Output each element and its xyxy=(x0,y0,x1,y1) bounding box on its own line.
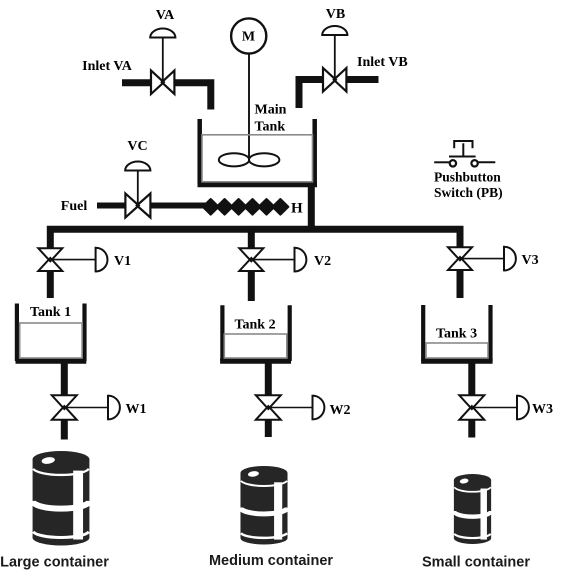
svg-text:Pushbutton: Pushbutton xyxy=(434,170,501,185)
pipe inlet VA right elbow xyxy=(174,83,210,110)
pipe tank2 outlet xyxy=(265,364,272,396)
svg-text:Switch (PB): Switch (PB) xyxy=(434,185,503,200)
tank 2 level xyxy=(224,334,286,358)
valve VA body xyxy=(151,71,174,95)
valve V2 xyxy=(239,248,263,271)
pipe inlet VB right xyxy=(346,76,378,83)
svg-text:Tank 2: Tank 2 xyxy=(234,318,275,333)
valve V3 xyxy=(448,247,472,270)
svg-text:Large container: Large container xyxy=(0,555,109,571)
pipe inlet VB left elbow xyxy=(299,80,323,109)
large container drum xyxy=(33,451,90,545)
main tank bottom xyxy=(198,181,318,187)
pipe main tank to manifold xyxy=(308,184,315,230)
valve VC body xyxy=(125,194,150,218)
svg-text:Tank 3: Tank 3 xyxy=(436,327,477,342)
tank 2 walls xyxy=(220,305,224,361)
pipe below V1 xyxy=(47,271,54,298)
valve VB body xyxy=(323,68,346,92)
agitator propeller left xyxy=(219,153,249,166)
small container drum xyxy=(454,474,491,544)
svg-text:W1: W1 xyxy=(126,402,147,417)
valve stem VB xyxy=(334,35,336,80)
tank 1 walls xyxy=(15,304,19,362)
pipe tank3 outlet xyxy=(468,364,475,396)
actuator dome VA xyxy=(150,29,175,38)
valve W3 xyxy=(459,395,484,420)
svg-text:Inlet VB: Inlet VB xyxy=(357,55,408,70)
svg-text:Main: Main xyxy=(255,103,287,118)
svg-text:H: H xyxy=(291,201,303,217)
pipe below W1 xyxy=(61,420,68,440)
main tank left wall xyxy=(197,119,202,184)
valve W1 xyxy=(52,395,77,420)
svg-text:V1: V1 xyxy=(114,254,131,269)
pipe tank1 outlet xyxy=(61,364,68,396)
main tank liquid level xyxy=(202,135,313,182)
valve V1 xyxy=(38,248,62,271)
main tank right wall xyxy=(312,119,317,184)
svg-text:Tank: Tank xyxy=(255,120,286,135)
svg-text:W2: W2 xyxy=(330,403,351,418)
pipe below W3 xyxy=(468,420,475,438)
svg-text:Inlet VA: Inlet VA xyxy=(82,59,133,74)
svg-text:W3: W3 xyxy=(532,402,553,417)
medium container drum xyxy=(240,466,287,545)
pushbutton switch PB symbol xyxy=(434,141,495,167)
svg-text:M: M xyxy=(242,29,255,44)
actuator dome VB xyxy=(322,26,347,35)
agitator shaft xyxy=(248,54,250,160)
motor M xyxy=(231,18,266,53)
tank 3 bottom xyxy=(421,358,493,364)
valve stem VA xyxy=(162,38,164,83)
svg-text:Small container: Small container xyxy=(422,555,530,571)
svg-text:VC: VC xyxy=(127,139,147,154)
tank 1 bottom xyxy=(16,358,87,364)
svg-text:Fuel: Fuel xyxy=(61,199,88,214)
svg-text:Tank 1: Tank 1 xyxy=(30,305,71,320)
tank 3 walls xyxy=(421,305,425,361)
branch pipe V2 xyxy=(248,229,255,249)
tank 2 bottom xyxy=(220,358,291,364)
pipe below V2 xyxy=(248,271,255,301)
tank 3 level xyxy=(426,343,488,358)
actuator dome VC xyxy=(125,162,150,171)
tank 1 level xyxy=(20,323,82,358)
valve W2 xyxy=(256,395,281,420)
pipe below W2 xyxy=(265,420,272,437)
fuel pipe left xyxy=(97,203,125,209)
pipe below V3 xyxy=(457,270,464,298)
agitator propeller right xyxy=(249,153,279,166)
svg-text:Medium container: Medium container xyxy=(209,553,333,569)
valve stem VC xyxy=(137,171,139,206)
svg-text:V2: V2 xyxy=(314,254,331,269)
pipe inlet VA left xyxy=(122,79,151,86)
svg-text:VA: VA xyxy=(156,8,175,23)
heater element H (diamonds) xyxy=(203,199,289,215)
fuel pipe right xyxy=(150,203,212,209)
svg-text:VB: VB xyxy=(326,7,345,22)
manifold header pipe xyxy=(50,229,460,249)
svg-text:V3: V3 xyxy=(522,253,539,268)
